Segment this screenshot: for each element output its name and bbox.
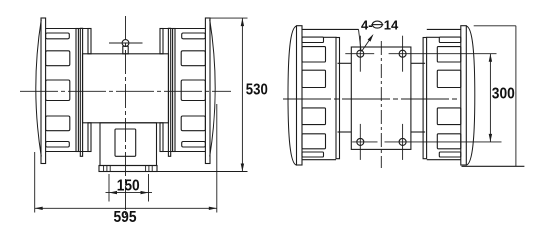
right cover top line <box>163 28 205 30</box>
bolt hole 2 vertical tick <box>402 36 404 72</box>
right cover fin 4 <box>181 116 205 131</box>
bolt hole 1 circle <box>357 50 364 57</box>
top-view right cover fin 4 <box>437 108 461 125</box>
motor body (front view) <box>83 54 169 123</box>
horizontal centerline of top view <box>283 98 460 100</box>
top-view left cover fin 3 <box>302 70 326 87</box>
mounting plate <box>351 47 411 149</box>
right frame extension line <box>515 26 517 167</box>
150 right arrowhead <box>141 191 149 194</box>
svg-text:595: 595 <box>114 209 137 226</box>
lifting eye bolt shank <box>123 46 128 54</box>
svg-text:4-: 4- <box>361 17 373 32</box>
right bearing-housing step lower <box>160 123 163 152</box>
label diameter symbol <box>372 21 382 28</box>
right step connector upper <box>411 62 425 64</box>
svg-text:300: 300 <box>492 86 515 103</box>
top hole row tick left <box>345 53 374 55</box>
right bearing-housing step upper <box>160 29 163 54</box>
left cover fin 5 <box>46 142 70 148</box>
left step connector upper <box>338 62 352 64</box>
left cover fin 3 <box>46 80 70 101</box>
150 left arrowhead <box>109 191 117 194</box>
left cover flange outer bar <box>80 28 82 156</box>
right cover flange outer bar <box>168 28 170 156</box>
595 right extension line <box>216 104 218 213</box>
top-view left cover fin 4 <box>302 108 326 125</box>
top-view right cover fin 3 <box>437 70 461 87</box>
base slot tick left 3 <box>109 166 111 172</box>
top-view right step bar A <box>423 38 427 159</box>
bolt hole 4 vertical tick <box>402 124 404 160</box>
horizontal centerline of front view <box>20 90 231 92</box>
530 bottom extension line <box>157 171 248 173</box>
top hole row tick right <box>389 53 497 55</box>
top-view right cover fin 5 <box>437 134 461 149</box>
top-view left cover dome arc <box>288 26 297 165</box>
530 bottom arrowhead <box>241 164 244 172</box>
bolt hole 3 circle <box>357 138 364 145</box>
right cover flange bar <box>173 29 175 152</box>
right cover fin 5 <box>182 142 206 148</box>
300 top arrowhead <box>489 54 492 62</box>
top-view left cover fin 5 <box>302 134 326 149</box>
top-view right cover fin 6 <box>439 152 461 157</box>
top-view left cover bottom line <box>302 159 336 161</box>
lifting eye bolt circle <box>122 40 129 47</box>
svg-text:530: 530 <box>246 82 268 99</box>
label leader arrowhead <box>368 33 375 42</box>
vertical centerline of front view <box>125 16 127 215</box>
foot slot hole <box>115 129 136 156</box>
right end-cover outer rim bar <box>205 18 210 164</box>
150 right extension line <box>148 174 150 202</box>
bolt hole 4 circle <box>399 138 406 145</box>
bolt hole 2 circle <box>399 50 406 57</box>
left cover flange bar <box>76 29 78 152</box>
top-view right cover dome arc <box>466 26 475 165</box>
right step upper shoulder <box>426 36 439 38</box>
595 left extension line <box>34 152 36 213</box>
bolt hole 3 vertical tick <box>359 124 361 160</box>
530 dimension line <box>241 18 243 171</box>
left step connector lower <box>338 131 352 133</box>
top-view left cover fin 2 <box>302 47 326 62</box>
base slot tick left 2 <box>106 166 108 172</box>
top-view right cover fin 2 <box>437 47 461 62</box>
mounting foot <box>100 123 157 166</box>
595 right arrowhead <box>209 207 217 210</box>
label leader bend to hole <box>359 29 362 50</box>
150 dimension line <box>106 192 153 194</box>
300 bottom arrowhead <box>489 134 492 142</box>
bolt hole 1 vertical tick <box>359 36 361 72</box>
eye bolt horizontal tick <box>109 42 143 44</box>
300 dimension line <box>489 54 491 142</box>
595 dimension line <box>35 207 217 209</box>
vertical centerline of mounting plate <box>380 41 382 168</box>
top-view left cover fin 1 <box>302 37 324 42</box>
left bearing-housing step upper <box>88 29 91 54</box>
bottom frame extension line <box>462 165 525 167</box>
base slot tick right 1 <box>145 166 147 172</box>
left bearing-housing step lower <box>88 123 91 152</box>
right cover fin 1 <box>182 33 206 39</box>
right cover fin 2 <box>181 51 205 66</box>
base slot tick right 3 <box>151 166 153 172</box>
right step connector lower <box>411 131 425 133</box>
left end-cover dome arc <box>36 20 42 157</box>
530 top extension line <box>210 17 248 19</box>
top-view right cover rim bar <box>461 26 467 165</box>
svg-text:14: 14 <box>384 17 399 32</box>
top-view right cover top line <box>427 28 461 30</box>
svg-text:150: 150 <box>117 178 140 195</box>
top-view left cover top line / leader start <box>302 28 359 30</box>
left step upper shoulder <box>324 36 337 38</box>
530 top arrowhead <box>241 18 244 26</box>
top-view right cover fin 1 <box>439 37 461 42</box>
top-view right cover bottom line <box>427 159 461 161</box>
150 left extension line <box>108 174 110 202</box>
base plate <box>99 166 157 172</box>
left cover fin 4 <box>46 116 70 131</box>
right end-cover dome arc <box>210 20 216 157</box>
base slot tick left 1 <box>103 166 105 172</box>
left cover top line <box>46 28 88 30</box>
top-view left cover rim bar <box>297 26 303 165</box>
top frame extension line <box>474 25 516 27</box>
base slot tick right 2 <box>148 166 150 172</box>
bottom hole row line <box>352 141 377 143</box>
595 left arrowhead <box>35 207 43 210</box>
left cover fin 1 <box>46 33 70 39</box>
left cover bottom line <box>46 151 88 153</box>
right cover bottom line <box>163 151 205 153</box>
top-view left step bar A <box>336 38 340 159</box>
right cover fin 3 <box>181 80 205 101</box>
label leader arrow line <box>362 36 373 52</box>
left end-cover outer rim bar <box>41 18 46 164</box>
left cover fin 2 <box>46 51 70 66</box>
top-view left cover fin 6 <box>302 152 324 157</box>
